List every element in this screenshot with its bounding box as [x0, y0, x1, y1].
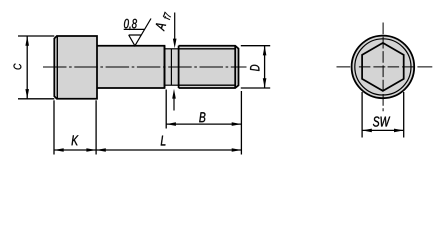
screw head outline	[54, 36, 97, 99]
outer circle (head diameter)	[352, 36, 415, 99]
dimension B	[166, 90, 241, 129]
screw head (side view) fill	[54, 36, 97, 99]
threaded section outline with tip chamfer	[179, 46, 239, 88]
undercut middle line	[170, 49, 172, 85]
surface finish symbol 0,8	[124, 19, 151, 46]
head chamfer line	[56, 36, 58, 99]
dimension C	[14, 36, 55, 99]
hex socket	[362, 43, 404, 91]
A f7 callout arrow top	[173, 13, 177, 49]
dimension D	[241, 46, 270, 88]
end view centerline vertical	[382, 23, 384, 112]
A f7 label	[155, 10, 172, 32]
shoulder shank fill	[97, 46, 165, 88]
dimension L	[96, 136, 241, 152]
shoulder shank outline	[97, 46, 165, 88]
thread root line top	[179, 48, 236, 50]
dimension K	[54, 135, 96, 151]
centerline side view	[43, 66, 247, 68]
dimension K and L extension lines	[53, 100, 55, 154]
thread root line bottom	[179, 84, 236, 86]
A f7 callout arrow bottom	[172, 89, 176, 111]
threaded section fill	[179, 46, 239, 88]
tip chamfer line	[234, 46, 236, 88]
thread start face	[178, 46, 180, 88]
inner circle (chamfer)	[355, 39, 411, 95]
end view centerline horizontal	[337, 66, 433, 68]
dimension SW	[362, 92, 404, 138]
shoulder end face	[164, 46, 166, 88]
end view head circle fill	[352, 36, 415, 99]
thread undercut fill	[165, 49, 179, 85]
thread undercut outline	[165, 49, 179, 85]
